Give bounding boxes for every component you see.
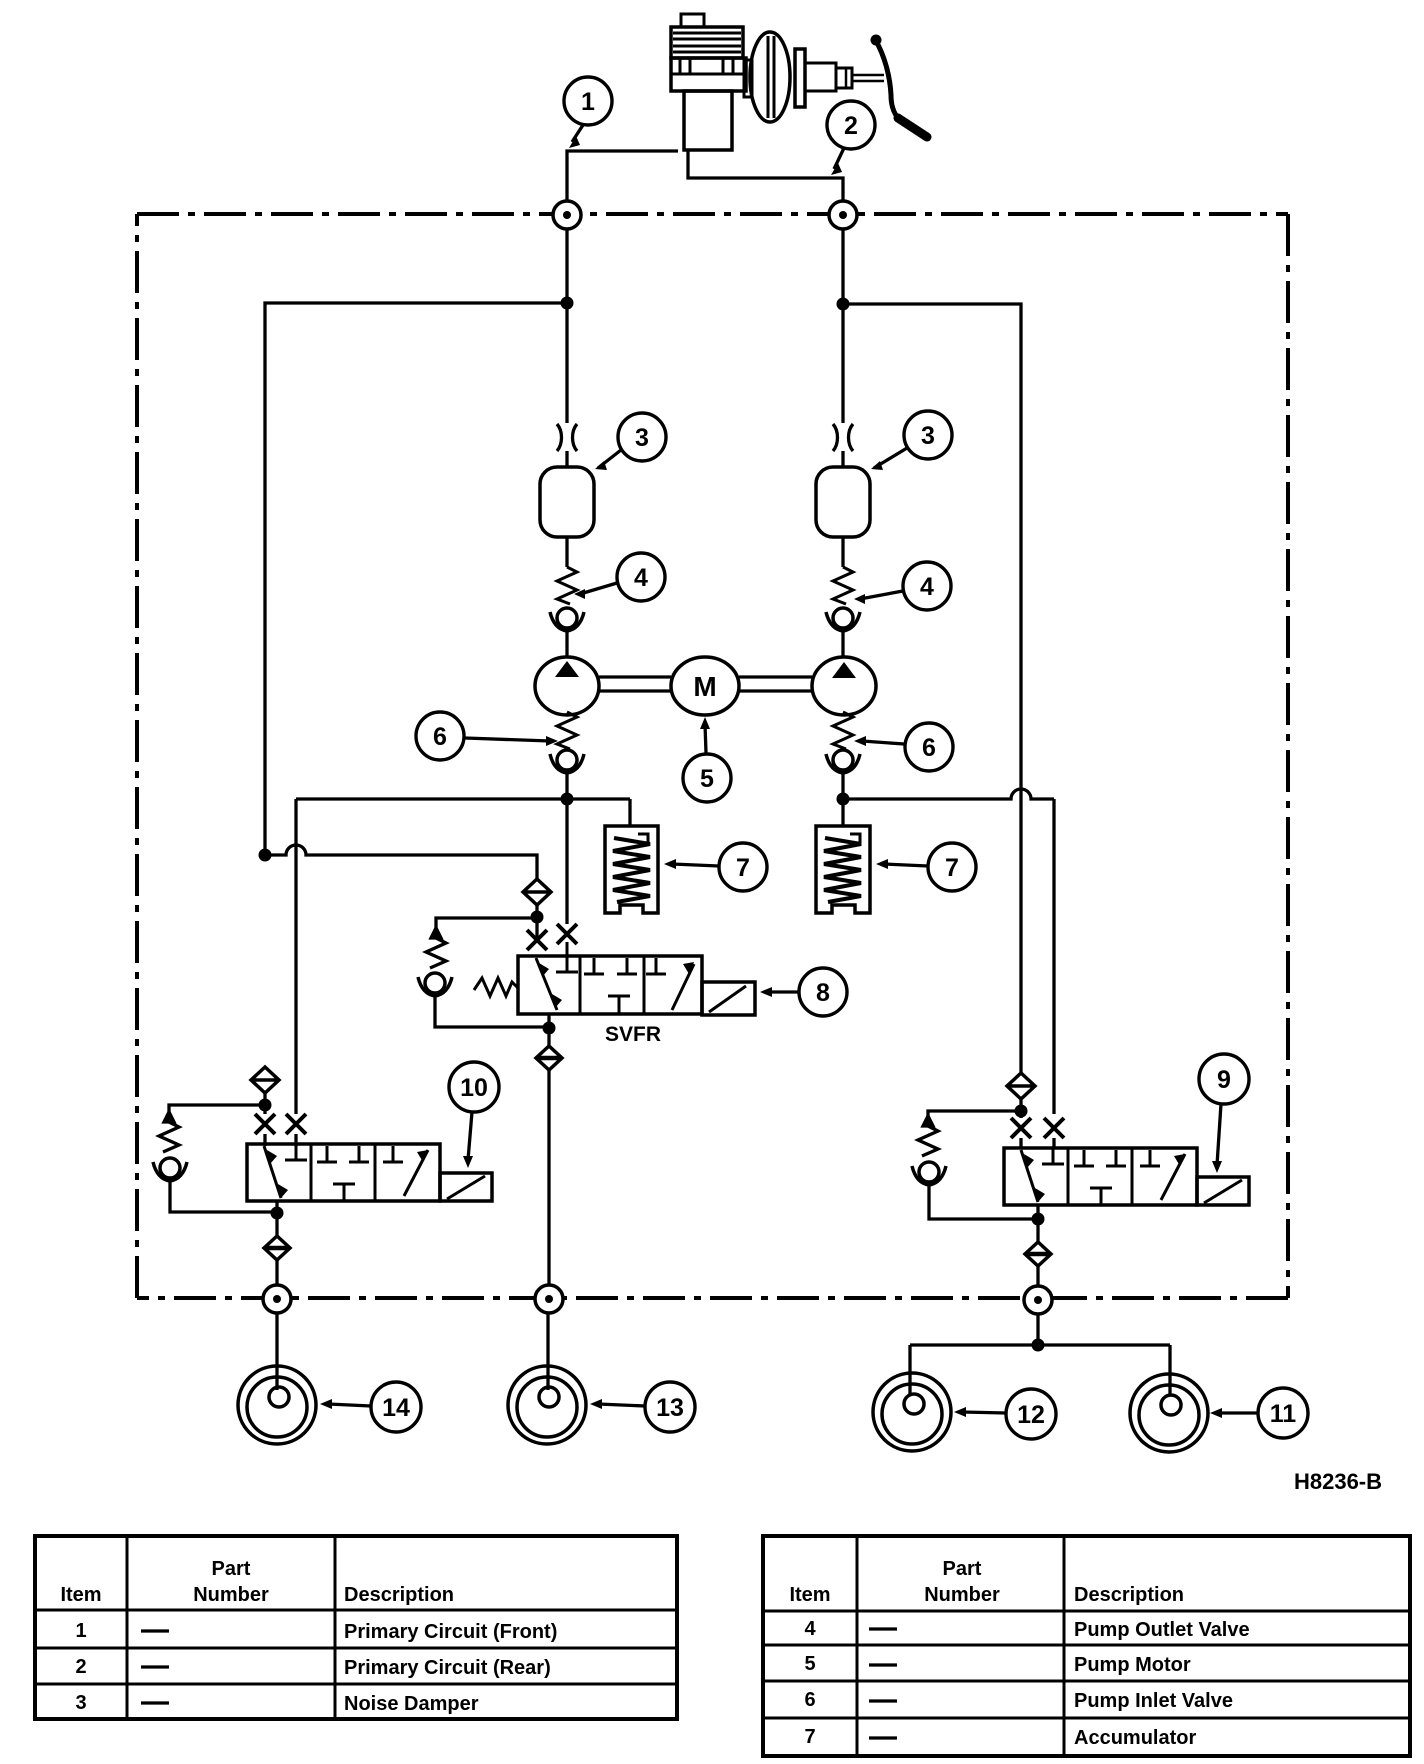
noise damper 3 left bbox=[540, 467, 594, 537]
svg-text:1: 1 bbox=[75, 1620, 86, 1642]
leader 3 left bbox=[595, 450, 621, 470]
wire bbox=[841, 537, 844, 567]
pump inlet valve 6 right ball bbox=[826, 750, 860, 773]
svg-text:Part: Part bbox=[212, 1558, 251, 1580]
svg-text:Pump Outlet Valve: Pump Outlet Valve bbox=[1074, 1619, 1250, 1641]
label circle 1 bbox=[564, 77, 612, 125]
svg-text:7: 7 bbox=[736, 854, 750, 882]
svg-text:Part: Part bbox=[943, 1558, 982, 1580]
pump motor M 5 bbox=[671, 657, 739, 715]
SVFR relief valve ball bbox=[418, 973, 452, 996]
right relief valve spring bbox=[918, 1116, 938, 1156]
node right valve outlet junction bbox=[1032, 1213, 1045, 1226]
wire bbox=[565, 630, 568, 656]
svg-text:Noise Damper: Noise Damper bbox=[344, 1693, 479, 1715]
wire pump junction horizontal right with hop bbox=[843, 789, 1054, 1114]
SVFR label text bbox=[605, 1023, 661, 1046]
parts table left bbox=[35, 1536, 677, 1719]
svg-text:Primary Circuit (Rear): Primary Circuit (Rear) bbox=[344, 1657, 551, 1679]
node pump junction right bbox=[837, 793, 850, 806]
svg-text:Pump Inlet Valve: Pump Inlet Valve bbox=[1074, 1690, 1233, 1712]
brake pedal bbox=[871, 35, 927, 137]
wire rear port split bbox=[910, 1314, 1170, 1396]
wheel 12 bbox=[873, 1373, 951, 1451]
pump outlet valve 4 left spring bbox=[557, 567, 577, 604]
leader 11 bbox=[1210, 1408, 1258, 1418]
wheel 14 bbox=[238, 1366, 316, 1444]
wire circuit1 down to SVFR port bbox=[565, 799, 568, 924]
label circle 7 right bbox=[928, 843, 976, 891]
node left valve outlet junction bbox=[271, 1207, 284, 1220]
parts table right bbox=[763, 1536, 1410, 1756]
leader 12 bbox=[954, 1407, 1006, 1417]
svg-text:6: 6 bbox=[804, 1689, 815, 1711]
port circle rear bbox=[1024, 1286, 1052, 1314]
label circle 5 bbox=[683, 754, 731, 802]
SVFR isolation cross 2 bbox=[557, 924, 577, 944]
label circle 3 right bbox=[904, 411, 952, 459]
label circle 2 bbox=[827, 101, 875, 149]
pump motor shaft left bbox=[599, 677, 671, 691]
label circle 6 left bbox=[416, 712, 464, 760]
node junction left feed bbox=[259, 849, 272, 862]
wire to SVFR relief bbox=[436, 918, 537, 936]
svg-text:8: 8 bbox=[816, 979, 830, 1007]
SVFR inlet filter bbox=[523, 879, 551, 905]
label circle 7 left bbox=[719, 843, 767, 891]
svg-text:SVFR: SVFR bbox=[605, 1023, 661, 1046]
solenoid valve 10 bbox=[247, 1144, 492, 1201]
brake booster bbox=[744, 32, 852, 122]
wire port to wheel 14 bbox=[275, 1313, 278, 1390]
wire to right relief bbox=[928, 1111, 1021, 1124]
left relief valve ball bbox=[153, 1158, 187, 1181]
svg-text:2: 2 bbox=[844, 112, 858, 140]
wire SVFR outlet to port bbox=[547, 1070, 550, 1285]
wire right valve outlet bbox=[1036, 1205, 1039, 1242]
pushrod bbox=[852, 75, 884, 81]
wire to left relief bbox=[169, 1105, 265, 1120]
node left valve junction bbox=[259, 1099, 272, 1112]
svg-text:Primary Circuit (Front): Primary Circuit (Front) bbox=[344, 1621, 557, 1643]
label circle 8 bbox=[799, 968, 847, 1016]
svg-text:13: 13 bbox=[656, 1394, 684, 1422]
node pump junction left bbox=[561, 793, 574, 806]
hose joint left bbox=[557, 424, 577, 451]
wheel 13 bbox=[508, 1366, 586, 1444]
svg-text:7: 7 bbox=[945, 854, 959, 882]
leader 4 left bbox=[574, 583, 617, 599]
pump outlet valve 4 left ball bbox=[550, 608, 584, 631]
leader 6 left bbox=[465, 736, 558, 746]
label circle 11 bbox=[1258, 1388, 1308, 1438]
svg-text:7: 7 bbox=[804, 1726, 815, 1748]
svg-text:4: 4 bbox=[634, 564, 648, 592]
wire circuit 1 from master cylinder bbox=[567, 151, 678, 201]
left valve isolation cross 2 bbox=[286, 1114, 306, 1134]
right valve isolation cross 1 bbox=[1011, 1118, 1031, 1138]
svg-text:12: 12 bbox=[1017, 1401, 1045, 1429]
svg-text:4: 4 bbox=[920, 573, 934, 601]
wire bbox=[841, 630, 844, 656]
svg-text:11: 11 bbox=[1270, 1400, 1297, 1428]
wire bbox=[565, 537, 568, 567]
leader 8 bbox=[760, 987, 799, 997]
svg-text:Item: Item bbox=[60, 1584, 101, 1606]
svg-text:Item: Item bbox=[789, 1584, 830, 1606]
label circle 12 bbox=[1006, 1389, 1056, 1439]
wire pump junction horizontal left bbox=[296, 799, 630, 1114]
svg-text:3: 3 bbox=[921, 422, 935, 450]
figure number H8236-B bbox=[1294, 1469, 1382, 1494]
svg-text:3: 3 bbox=[75, 1692, 86, 1714]
pump inlet valve 6 left spring bbox=[557, 712, 577, 749]
wire SVFR relief to outlet bbox=[435, 995, 549, 1027]
svg-text:5: 5 bbox=[700, 765, 714, 793]
node rear split junction bbox=[1032, 1339, 1045, 1352]
right relief valve ball bbox=[912, 1162, 946, 1185]
SVFR outlet check valve bbox=[536, 1046, 562, 1070]
master cylinder body bbox=[671, 58, 746, 150]
svg-text:9: 9 bbox=[1217, 1066, 1231, 1094]
label circle 10 bbox=[449, 1062, 499, 1112]
svg-text:14: 14 bbox=[382, 1394, 410, 1422]
leader 14 bbox=[320, 1399, 371, 1409]
leader 9 bbox=[1212, 1104, 1222, 1173]
port circle circuit 1 bbox=[553, 201, 581, 229]
svg-text:Description: Description bbox=[344, 1584, 454, 1606]
svg-text:5: 5 bbox=[804, 1653, 815, 1675]
wire to port 14 bbox=[275, 1260, 278, 1285]
wire bbox=[1021, 1099, 1054, 1149]
left relief valve spring bbox=[159, 1112, 179, 1152]
svg-text:Pump Motor: Pump Motor bbox=[1074, 1654, 1191, 1676]
leader 4 right bbox=[854, 591, 903, 604]
svg-text:Description: Description bbox=[1074, 1584, 1184, 1606]
leader 1 bbox=[569, 125, 583, 148]
right valve isolation cross 2 bbox=[1044, 1118, 1064, 1138]
left valve inlet filter bbox=[251, 1067, 279, 1093]
svg-text:Accumulator: Accumulator bbox=[1074, 1727, 1196, 1749]
accumulator 7 left bbox=[605, 826, 658, 913]
label circle 13 bbox=[645, 1382, 695, 1432]
pump outlet valve 4 right ball bbox=[826, 608, 860, 631]
pump inlet valve 6 left ball bbox=[550, 750, 584, 773]
accumulator 7 right bbox=[816, 826, 870, 913]
svg-text:2: 2 bbox=[75, 1656, 86, 1678]
SVFR isolation cross 1 bbox=[527, 930, 547, 950]
leader 6 right bbox=[854, 736, 904, 746]
wire branch to left valve bbox=[265, 303, 567, 855]
port circle front left bbox=[263, 1285, 291, 1313]
right outlet check valve bbox=[1025, 1242, 1051, 1266]
pump right bbox=[812, 657, 876, 715]
label circle 4 right bbox=[903, 562, 951, 610]
wire bbox=[535, 905, 538, 938]
label circle 4 left bbox=[617, 553, 665, 601]
wire left feed to SVFR with hop bbox=[265, 845, 537, 879]
leader 10 bbox=[463, 1112, 473, 1168]
port circle front SVFR bbox=[535, 1285, 563, 1313]
wire circuit2 vertical bbox=[841, 229, 844, 467]
node right valve junction bbox=[1015, 1105, 1028, 1118]
wire bbox=[265, 1093, 296, 1146]
leader 5 bbox=[700, 717, 710, 753]
wire circuit 2 from master cylinder bbox=[688, 150, 843, 201]
pump inlet valve 6 right spring bbox=[833, 712, 853, 749]
node SVFR filter junction bbox=[531, 911, 544, 924]
leader 2 bbox=[831, 148, 844, 175]
wheel 11 bbox=[1130, 1374, 1208, 1452]
port circle circuit 2 bbox=[829, 201, 857, 229]
left outlet check valve bbox=[264, 1236, 290, 1260]
wire to port rear bbox=[1036, 1266, 1039, 1286]
node junction circuit2 top bbox=[837, 298, 850, 311]
leader 7 left bbox=[664, 859, 719, 869]
wire bbox=[841, 772, 844, 826]
node SVFR outlet junction bbox=[543, 1022, 556, 1035]
wire right relief to outlet bbox=[929, 1184, 1038, 1219]
svg-text:4: 4 bbox=[804, 1618, 816, 1640]
label circle 14 bbox=[371, 1382, 421, 1432]
svg-text:H8236-B: H8236-B bbox=[1294, 1469, 1382, 1494]
svg-text:10: 10 bbox=[460, 1074, 488, 1102]
wire bbox=[565, 772, 568, 799]
wire left valve outlet bbox=[275, 1201, 278, 1236]
leader 3 right bbox=[871, 448, 907, 470]
hose joint right bbox=[833, 424, 853, 451]
HCU boundary dash-dot box bbox=[137, 214, 1288, 1298]
wire SVFR outlet bbox=[547, 1014, 550, 1046]
label circle 9 bbox=[1199, 1054, 1249, 1104]
wire branch to right valve bbox=[843, 304, 1021, 1073]
svg-text:6: 6 bbox=[433, 723, 447, 751]
svg-text:3: 3 bbox=[635, 424, 649, 452]
svg-text:6: 6 bbox=[922, 734, 936, 762]
noise damper 3 right bbox=[816, 467, 870, 537]
label circle 3 left bbox=[618, 413, 666, 461]
leader 13 bbox=[590, 1399, 645, 1409]
right valve inlet filter bbox=[1007, 1073, 1035, 1099]
svg-text:1: 1 bbox=[581, 88, 595, 116]
pump outlet valve 4 right spring bbox=[833, 567, 853, 604]
wire port to wheel 13 bbox=[546, 1313, 549, 1390]
leader 7 right bbox=[876, 859, 928, 869]
pump motor shaft right bbox=[739, 677, 812, 691]
label circle 6 right bbox=[905, 723, 953, 771]
solenoid valve 9 bbox=[1004, 1148, 1249, 1205]
wire left relief to outlet bbox=[170, 1180, 277, 1212]
wire circuit1 vertical bbox=[565, 229, 568, 467]
node junction circuit1 top bbox=[561, 297, 574, 310]
SVFR relief valve spring bbox=[426, 928, 446, 968]
master cylinder reservoir bbox=[671, 14, 743, 58]
svg-text:M: M bbox=[693, 671, 716, 702]
SVFR valve body 8 bbox=[474, 942, 755, 1015]
svg-text:Number: Number bbox=[193, 1584, 269, 1606]
left valve isolation cross 1 bbox=[255, 1114, 275, 1134]
svg-text:Number: Number bbox=[924, 1584, 1000, 1606]
pump left bbox=[535, 657, 599, 715]
